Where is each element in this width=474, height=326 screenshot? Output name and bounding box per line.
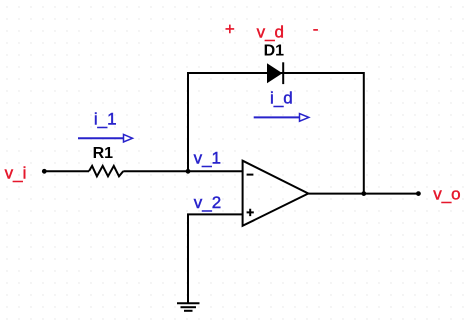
svg-text:v_o: v_o [433,185,460,204]
svg-text:v_d: v_d [257,22,284,41]
svg-text:+: + [225,20,235,39]
svg-text:i_1: i_1 [94,109,117,128]
svg-text:v_2: v_2 [194,193,221,212]
svg-text:-: - [313,20,319,39]
svg-text:v_i: v_i [5,163,27,182]
svg-text:D1: D1 [264,43,285,60]
svg-text:R1: R1 [93,145,114,162]
svg-text:i_d: i_d [270,88,293,107]
svg-text:v_1: v_1 [194,148,221,167]
